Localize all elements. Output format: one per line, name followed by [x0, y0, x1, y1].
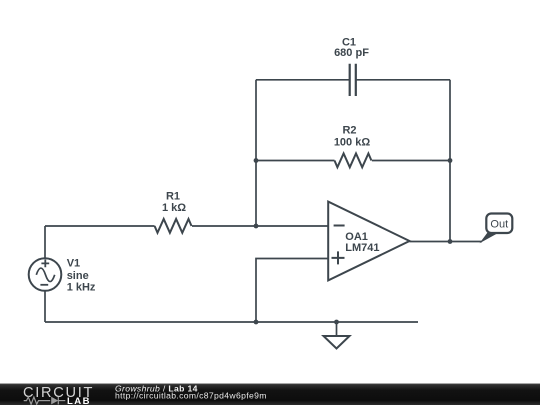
svg-text:sine: sine: [67, 270, 89, 282]
svg-text:R2: R2: [342, 125, 356, 137]
svg-text:http://circuitlab.com/c87pd4w6: http://circuitlab.com/c87pd4w6pfe9m: [115, 390, 267, 400]
svg-text:V1: V1: [67, 258, 80, 270]
svg-text:Out: Out: [490, 219, 508, 231]
svg-text:1 kHz: 1 kHz: [67, 282, 96, 294]
svg-text:1 kΩ: 1 kΩ: [162, 202, 186, 214]
svg-text:R1: R1: [166, 191, 180, 203]
svg-text:100 kΩ: 100 kΩ: [334, 136, 371, 148]
svg-text:LAB: LAB: [67, 396, 91, 405]
svg-text:680 pF: 680 pF: [334, 47, 369, 59]
svg-text:LM741: LM741: [345, 242, 379, 254]
